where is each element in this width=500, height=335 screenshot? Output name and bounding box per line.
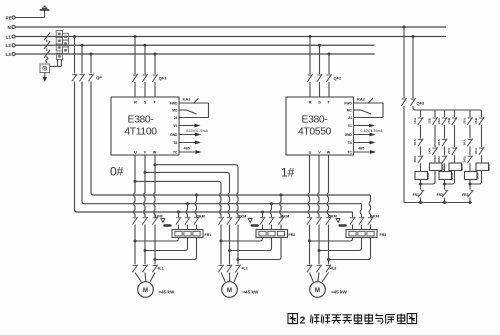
contactor coil 1KM [415, 172, 430, 180]
meter PV (kWh meter box) [40, 64, 50, 73]
terminal L1 [6, 34, 16, 39]
wire converge to motor M1 [135, 273, 155, 282]
motor M3 [310, 282, 326, 298]
svg-text:1KA: 1KA [413, 139, 417, 146]
switch QF bypass 3-pole contacts [72, 37, 103, 82]
node L3 inverter2 tap [328, 53, 331, 56]
svg-text:M: M [227, 287, 232, 294]
svg-text:4KM: 4KM [281, 215, 289, 219]
svg-text:3KM: 3KM [463, 156, 467, 163]
wire feed columns to isolator M2 [221, 225, 238, 265]
svg-text:4T1100: 4T1100 [124, 127, 157, 138]
wire pump2 bypass left column [262, 212, 264, 217]
wire inverter1 output W column [154, 155, 155, 217]
contactor 3KM 3-pole contacts [218, 215, 246, 225]
wire pump3 bypass left column (bus3 bend) [352, 212, 354, 217]
wire pump1 bypass right column [195, 195, 196, 217]
svg-text:FR3: FR3 [380, 233, 387, 237]
node L2 inverter2 tap [318, 44, 321, 47]
thermal contact FR3 normally closed [462, 191, 474, 198]
svg-text:U: U [309, 151, 312, 155]
node L1 bypass tap [73, 35, 76, 38]
svg-text:U: U [134, 151, 137, 155]
inverter1 TA arrow [179, 141, 201, 151]
interlock mark pump2 [248, 219, 259, 227]
relay coil 3KA [476, 163, 491, 171]
ground (earth) symbol [40, 6, 50, 17]
svg-text:24: 24 [174, 116, 178, 120]
inverter1 TC arrow [179, 150, 202, 154]
node U tap [134, 180, 137, 183]
svg-text:FR2: FR2 [289, 233, 296, 237]
svg-text:M: M [315, 287, 320, 294]
contactor 1KM 3-pole contacts [132, 215, 162, 225]
svg-text:≈45 kW: ≈45 kW [243, 290, 259, 295]
wire inverter2 output U column [308, 155, 309, 217]
relay contact in branch 6 [474, 147, 484, 155]
svg-text:4L1: 4L1 [158, 266, 164, 270]
wire bypass phase2 join [319, 238, 362, 251]
selector contact 3SA [463, 117, 473, 125]
svg-text:E380-: E380- [302, 115, 328, 126]
isolator 4L2 3-pole [218, 265, 247, 273]
svg-text:2: 2 [300, 315, 306, 327]
breaker QF1 3-pole [132, 37, 167, 98]
terminal L3 [6, 52, 16, 57]
relay contact KA1 at inverter1 FWD input [179, 96, 209, 117]
wire W tap to pump2 column [155, 165, 238, 168]
svg-text:L1: L1 [6, 34, 12, 39]
contactor 2KM 3-pole contacts [176, 215, 205, 225]
inverter U2 E380-4T0550 [286, 97, 354, 155]
svg-text:KA1: KA1 [183, 96, 192, 101]
contactor 6KM 3-pole contacts [350, 215, 379, 225]
wire L2 rail [15, 44, 374, 46]
svg-text:V: V [318, 151, 321, 155]
wire bypass phase1 join [310, 238, 353, 242]
svg-text:≈45 kW: ≈45 kW [331, 290, 347, 295]
contact KA3 in branch 5 [463, 139, 473, 147]
wire inverter2 output V column [318, 155, 319, 217]
svg-text:L2: L2 [6, 43, 12, 48]
main switch QS blades on L1 L2 L3 [44, 32, 50, 63]
wire L1 rail [15, 36, 446, 38]
node L2 inverter1 tap [144, 44, 147, 47]
thermal relay FR1 [172, 225, 211, 238]
svg-text:QF1: QF1 [159, 76, 168, 81]
breaker QF3 2-pole [401, 98, 425, 106]
thermal contact FR1 normally closed [413, 191, 425, 198]
control branch 2 wire [434, 110, 436, 117]
svg-text:2KA: 2KA [437, 139, 441, 146]
wire pump2 bypass mid column [270, 204, 271, 217]
terminal L2 [6, 43, 16, 48]
svg-text:MC: MC [347, 108, 353, 112]
wire pump2 bypass right column [280, 195, 281, 217]
node L1 control tap [412, 35, 415, 38]
svg-text:2KM: 2KM [437, 156, 441, 163]
svg-text:V1: V1 [348, 124, 352, 128]
node L1 inverter2 tap [309, 35, 312, 38]
svg-text:2KM: 2KM [450, 172, 454, 179]
interlock mark pump1 [161, 219, 172, 227]
node bus3 to pump2 bypass [261, 211, 264, 214]
wire bypass phase2 join [145, 238, 188, 251]
node L1 inverter1 tap [134, 35, 137, 38]
terminal N [8, 25, 16, 30]
svg-text:FR1: FR1 [413, 193, 420, 197]
wire inverter1 output U column [134, 155, 135, 217]
inverter2 TA arrow [354, 141, 376, 151]
svg-text:1KM: 1KM [155, 215, 163, 219]
thermal contact FR2 normally closed [437, 191, 449, 198]
svg-text:1SB: 1SB [428, 117, 432, 124]
svg-text:L3: L3 [6, 52, 12, 57]
svg-text:R: R [309, 100, 312, 104]
svg-text:1KA: 1KA [441, 164, 445, 171]
svg-text:2KA: 2KA [460, 164, 464, 171]
wire N rail [15, 26, 446, 28]
wire bypass phase3 join [155, 238, 197, 260]
motor M2 [222, 282, 238, 298]
svg-text:3SA: 3SA [463, 117, 467, 124]
svg-text:TC: TC [173, 150, 178, 154]
svg-text:3KA: 3KA [487, 164, 491, 171]
interlock contact in branch 5 [463, 156, 473, 164]
interlock contact in branch 3 [437, 156, 447, 164]
svg-text:FWD: FWD [344, 101, 352, 105]
wire bypass phase3 join [329, 238, 371, 260]
svg-text:M: M [143, 287, 148, 294]
svg-text:3KM: 3KM [238, 215, 246, 219]
wire converge to motor M2 [221, 273, 238, 282]
svg-text:GND: GND [170, 133, 178, 137]
svg-text:FR2: FR2 [437, 193, 444, 197]
wire pump1 bypass left column [178, 212, 180, 217]
inverter2 GND arrow [354, 133, 376, 137]
svg-text:2KA: 2KA [447, 147, 451, 154]
svg-text:2SA: 2SA [437, 117, 441, 124]
relay contact in branch 2 [428, 147, 438, 155]
svg-text:24: 24 [348, 116, 352, 120]
svg-text:QF2: QF2 [334, 76, 343, 81]
wire N drop to control [403, 27, 405, 98]
wire U tap to pump2 column [135, 181, 221, 184]
svg-text:FR3: FR3 [462, 193, 469, 197]
wire inverter1 output V column [144, 155, 145, 217]
svg-text:S: S [144, 100, 147, 104]
wire bypass phase1 join [221, 238, 263, 242]
svg-text:FR1: FR1 [205, 233, 212, 237]
selector contact 1SA [413, 117, 423, 125]
svg-text:W: W [327, 151, 331, 155]
svg-text:3KA: 3KA [474, 147, 478, 154]
svg-text:4L2: 4L2 [242, 266, 248, 270]
wire V tap to pump2 column [145, 172, 230, 175]
wire L1 drop to control [412, 37, 414, 99]
control branch 4 wire [454, 110, 456, 117]
contactor 5KM 3-pole contacts [307, 215, 337, 225]
relay coil 1KA [430, 163, 445, 171]
wire pump3 bypass mid column (bus2 bend) [360, 204, 361, 217]
wire feed columns to isolator M1 [135, 225, 155, 265]
svg-text:4L3: 4L3 [330, 266, 336, 270]
wire branch 6 join [470, 171, 482, 185]
wire bypass phase3 join [238, 238, 281, 260]
motor M1 [138, 282, 154, 298]
wire N side of control down to bottom bus [403, 106, 405, 203]
node bus1 to pump2 bypass [280, 194, 283, 197]
svg-text:4T0550: 4T0550 [298, 127, 332, 138]
svg-text:1#: 1# [281, 166, 295, 180]
svg-text:3SB: 3SB [474, 117, 478, 124]
svg-text:E380-: E380- [128, 115, 154, 126]
thermal relay FR2 [256, 225, 295, 238]
isolator 4L3 3-pole [307, 265, 336, 273]
svg-text:485: 485 [358, 146, 364, 150]
caption 图2 冷冻泵变频电气原理图 [288, 314, 297, 324]
terminal PE [6, 15, 16, 20]
relay contact KA2 at inverter2 FWD input [354, 96, 384, 117]
contactor coil 3KM [465, 172, 480, 180]
interlock mark pump3 [336, 219, 347, 227]
selector contact 3SB [474, 117, 484, 125]
svg-text:KA2: KA2 [357, 96, 366, 101]
breaker QF2 3-pole [307, 37, 342, 98]
contactor coil 2KM [439, 172, 454, 180]
wire bypass phase2 join [230, 238, 272, 251]
control branch 6 wire [481, 110, 483, 117]
svg-text:2KM: 2KM [197, 215, 205, 219]
svg-text:QF: QF [96, 75, 102, 80]
isolator 4L1 3-pole [132, 265, 163, 273]
wire control bottom bus [404, 202, 472, 204]
svg-text:0#: 0# [110, 165, 124, 179]
svg-text:6KM: 6KM [371, 215, 379, 219]
interlock contact in branch 1 [413, 156, 423, 164]
control branch 3 wire [444, 110, 446, 117]
wire branch 4 join [445, 171, 455, 185]
wire control top bus [413, 106, 482, 110]
node L2 bypass tap [81, 44, 84, 47]
selector contact 1SB [428, 117, 438, 125]
svg-text:5KM: 5KM [329, 215, 337, 219]
relay contact in branch 4 [447, 147, 457, 155]
inverter2 analog output arrow 0-10V [354, 124, 384, 134]
svg-text:≈45 kW: ≈45 kW [159, 290, 175, 295]
svg-text:0-10V/4-20mA: 0-10V/4-20mA [186, 129, 209, 133]
inverter2 TC arrow [354, 150, 377, 154]
wire converge to motor M3 [310, 273, 329, 282]
node W tap [154, 163, 157, 166]
svg-text:1KM: 1KM [413, 156, 417, 163]
wire inverter2 output W column [327, 155, 328, 217]
wire bypass L2 to middle bus [82, 82, 362, 204]
wire bypass L1 to bottom bus [75, 82, 353, 213]
svg-text:TA: TA [348, 141, 353, 145]
wire PE to ground [15, 17, 44, 19]
fuse FU1 (two-column fuse block) [50, 31, 69, 67]
selector contact 2SA [437, 117, 447, 125]
svg-text:2SB: 2SB [447, 117, 451, 124]
contact KA1 in branch 1 [413, 139, 423, 147]
svg-text:R: R [134, 100, 137, 104]
control branch 5 wire [469, 110, 471, 117]
svg-text:485: 485 [184, 146, 190, 150]
svg-text:V1: V1 [173, 124, 177, 128]
wire pump3 bypass right column (bus1 bend) [369, 195, 370, 217]
svg-text:MC: MC [172, 108, 178, 112]
node bus3 to pump1 bypass [177, 211, 180, 214]
wire feed columns to isolator M3 [310, 225, 329, 265]
svg-text:S: S [318, 100, 321, 104]
control branch 1 wire [420, 110, 422, 117]
node bus1 to pump1 bypass [195, 194, 198, 197]
svg-text:GND: GND [345, 133, 353, 137]
node V tap [144, 171, 147, 174]
wire pump1 bypass mid column [186, 204, 187, 217]
svg-text:TA: TA [173, 141, 178, 145]
svg-text:PE: PE [6, 15, 12, 20]
node L3 bypass tap [90, 53, 93, 56]
svg-text:1KM: 1KM [426, 172, 430, 179]
contact KA2 in branch 3 [437, 139, 447, 147]
svg-text:TC: TC [347, 150, 352, 154]
svg-text:0-10V/4-20mA: 0-10V/4-20mA [361, 129, 384, 133]
relay coil 2KA [449, 163, 464, 171]
svg-text:V: V [144, 151, 147, 155]
svg-text:FWD: FWD [170, 101, 178, 105]
selector contact 2SB [447, 117, 457, 125]
svg-text:W: W [153, 151, 157, 155]
inverter U1 E380-4T1100 [111, 97, 179, 155]
wire L3 rail [15, 53, 374, 55]
svg-text:1KA: 1KA [428, 147, 432, 154]
node bus2 to pump2 bypass [270, 202, 273, 205]
wire bypass L3 to top bus [91, 82, 371, 196]
svg-text:QF3: QF3 [417, 101, 426, 106]
node N tap for control circuit [403, 26, 406, 29]
wire branch 2 join [421, 171, 436, 185]
svg-text:1SA: 1SA [413, 117, 417, 124]
svg-text:3KM: 3KM [476, 172, 480, 179]
node L3 inverter1 tap [154, 53, 157, 56]
contactor 4KM 3-pole contacts [260, 215, 289, 225]
node bus2 to pump1 bypass [186, 202, 189, 205]
inverter1 GND arrow [179, 133, 201, 137]
wire bypass phase1 join [135, 238, 179, 242]
thermal relay FR3 [346, 225, 386, 238]
wire meter to terminal arrow [43, 73, 47, 83]
svg-text:3KA: 3KA [463, 139, 467, 146]
inverter1 analog output arrow 0-10V [179, 124, 209, 134]
